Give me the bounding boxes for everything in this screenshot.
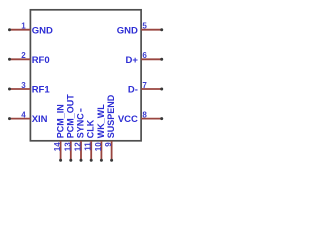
svg-text:XIN: XIN <box>32 114 48 125</box>
pin 4 XIN (left) <box>8 110 48 125</box>
svg-text:1: 1 <box>21 22 26 31</box>
pin 9 SUSPEND (bottom) <box>104 94 116 162</box>
svg-text:8: 8 <box>142 110 147 119</box>
svg-text:SUSPEND: SUSPEND <box>106 94 116 138</box>
svg-text:GND: GND <box>117 25 138 36</box>
svg-text:6: 6 <box>142 51 147 60</box>
pin 14 PCM_IN (bottom) <box>53 104 65 162</box>
svg-text:GND: GND <box>32 25 53 36</box>
svg-text:D-: D- <box>128 85 138 96</box>
svg-text:D+: D+ <box>125 55 138 66</box>
svg-text:PCM_IN: PCM_IN <box>55 104 65 138</box>
svg-text:11: 11 <box>84 142 93 151</box>
IC body U1 <box>30 10 141 141</box>
pin 2 RF0 (left) <box>8 51 50 66</box>
pin 3 RF1 (left) <box>8 81 50 96</box>
svg-text:RF0: RF0 <box>32 55 50 66</box>
svg-text:10: 10 <box>94 142 103 151</box>
svg-text:2: 2 <box>21 51 26 60</box>
svg-text:14: 14 <box>53 142 62 151</box>
pin 12 SYNC (bottom, overline on C) <box>74 109 86 162</box>
svg-text:CLK: CLK <box>86 119 96 138</box>
pin 8 VCC (right) <box>118 110 163 125</box>
svg-text:7: 7 <box>142 81 147 90</box>
svg-text:13: 13 <box>63 142 72 151</box>
svg-text:WK_WL: WK_WL <box>96 104 106 138</box>
svg-text:SYNC: SYNC <box>76 113 86 139</box>
pin 10 WK_WL (bottom) <box>94 104 106 162</box>
svg-text:RF1: RF1 <box>32 85 51 96</box>
svg-text:4: 4 <box>21 110 26 119</box>
pin 5 GND (right) <box>117 22 163 37</box>
pin 13 PCM_OUT (bottom) <box>63 94 75 162</box>
svg-text:3: 3 <box>21 81 26 90</box>
pin 11 CLK (bottom) <box>84 119 96 162</box>
svg-text:PCM_OUT: PCM_OUT <box>65 94 75 139</box>
svg-text:9: 9 <box>104 142 113 147</box>
svg-text:5: 5 <box>142 22 147 31</box>
svg-text:12: 12 <box>74 142 83 151</box>
pin 6 D+ (right) <box>125 51 163 66</box>
pin 1 GND (left) <box>8 22 53 37</box>
svg-text:VCC: VCC <box>118 114 138 125</box>
pin 7 D- (right) <box>128 81 163 96</box>
